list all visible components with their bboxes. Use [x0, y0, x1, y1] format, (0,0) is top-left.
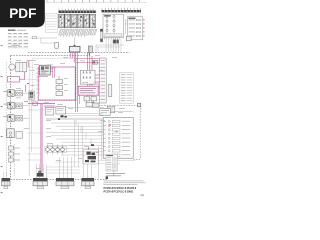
- magenta left column marks: [8, 62, 29, 102]
- bundle below K1: [96, 45, 124, 52]
- wires from left column right: [27, 67, 41, 160]
- relay box K1: [103, 14, 124, 37]
- legend table: [106, 154, 118, 171]
- left connector LC5: [7, 129, 23, 139]
- dark box DL: [93, 103, 100, 107]
- sub components chain: [56, 76, 63, 96]
- left dashed device boundary: [13, 144, 15, 176]
- relay component RC1: [70, 45, 81, 52]
- left device cluster LD: [9, 146, 21, 162]
- small dark box mid: [93, 61, 98, 65]
- connector block J1 top ticks: [59, 9, 93, 11]
- connector block J1 lower hatch row: [59, 29, 97, 35]
- sensor cluster dark: [85, 144, 96, 162]
- wires between K1 and D1: [125, 20, 128, 34]
- mini cluster ML: [29, 91, 34, 100]
- magenta riser top horizontal: [28, 104, 55, 107]
- component B3: [88, 46, 92, 55]
- bottom connector BC3: [82, 178, 95, 189]
- vertical wires to bottom components: [4, 157, 92, 182]
- wires from J1 down: [61, 35, 85, 45]
- collector vertical lines: [29, 62, 31, 176]
- wire W38: [30, 36, 57, 43]
- diode block D1 magenta pins: [143, 20, 145, 36]
- note lines upper: [106, 173, 125, 176]
- main dashed boundary upper line: [28, 51, 130, 53]
- magenta bus vertical pair: [70, 52, 77, 112]
- left bus vertical: [5, 62, 7, 176]
- dashed box right: corner mark: [138, 103, 141, 107]
- dashed box right: bottom segment: [133, 159, 141, 161]
- left legend table: [8, 30, 29, 48]
- page number: [141, 195, 144, 196]
- horizontal wires upper mid: [28, 108, 104, 119]
- pin list table: [120, 73, 133, 104]
- small label left of dashed: [12, 45, 21, 48]
- scattered tiny labels: [16, 55, 125, 169]
- label box L1: [100, 108, 133, 115]
- magenta small box near riser: [33, 102, 38, 105]
- bracket element: [108, 85, 112, 97]
- diode block D1 box: [127, 17, 143, 40]
- top border ruler ticks: [46, 0, 147, 3]
- solenoid cluster circles: [45, 145, 67, 155]
- svg-text:PC270-8 PC270LC-8 30001: PC270-8 PC270LC-8 30001: [104, 189, 135, 193]
- CB2 pink marks: [109, 124, 118, 131]
- wires below K1: [106, 39, 121, 51]
- mid box MB2: [56, 106, 66, 114]
- main dashed boundary bottom edge: [2, 179, 107, 181]
- magenta horizontals: [76, 59, 100, 88]
- connector CN1 dark pair: [113, 40, 119, 44]
- magenta box M1: [38, 67, 75, 100]
- sensor S0 circle-box: [9, 62, 27, 71]
- bottom connector BC0: [2, 178, 11, 189]
- dashed bottom end tick: [106, 176, 108, 179]
- small box B2: [55, 43, 59, 49]
- note paragraph: [104, 181, 146, 185]
- sensor cluster outline: [84, 150, 99, 165]
- main dashed boundary left edge: [10, 56, 12, 180]
- magenta inner laterals M1: [38, 67, 79, 105]
- page background: [0, 0, 149, 198]
- label box L2: [107, 106, 115, 112]
- connector block J1 top bar: [59, 11, 97, 14]
- contact box CB1: [81, 70, 96, 84]
- dashed box right: right edge: [140, 106, 142, 160]
- dashed box right: top: [96, 105, 141, 107]
- diode block D1 header: [128, 18, 135, 19]
- magenta box M2 text: [80, 88, 96, 93]
- riser foot element: [37, 171, 44, 177]
- magenta tick cluster small: [88, 147, 98, 152]
- PDF badge: [0, 0, 45, 27]
- connector block J1 cells: [59, 14, 96, 28]
- horizontal gather wires above bottom: [46, 161, 135, 174]
- note list box: [46, 14, 58, 33]
- left border ruler ticks: [1, 45, 3, 193]
- relay box K1 pin row: [105, 38, 120, 40]
- left connector LC3: [3, 115, 29, 122]
- diode block D1 rows: [129, 19, 141, 36]
- ECU connector column: [98, 58, 106, 103]
- dashed box center: [33, 58, 77, 101]
- svg-text:PDF: PDF: [9, 6, 36, 21]
- terminal strip top bar: [102, 10, 142, 12]
- dashed segment near legend: [113, 167, 115, 177]
- magenta verticals right: [88, 53, 92, 105]
- magenta box M1 top stub: [27, 61, 31, 84]
- bottom connector BC1: [33, 178, 48, 189]
- left connector LC1: [3, 90, 29, 97]
- comb wires left of CB2: [46, 120, 103, 155]
- left connector LC2: [3, 102, 29, 109]
- terminal strip ticks: [102, 8, 140, 10]
- controller box CB2: [103, 118, 133, 159]
- relay box K1 internals: [105, 15, 123, 36]
- main dashed boundary top-left segment: [11, 55, 91, 57]
- cluster under M2: [84, 97, 97, 107]
- bottom connector BC2: [56, 178, 74, 189]
- magenta box M2: [78, 86, 98, 95]
- mid box MB1: [45, 108, 54, 116]
- dark marks under MB2: [58, 115, 67, 120]
- vertical link element: [100, 29, 103, 42]
- relay box K1 header: [104, 15, 111, 16]
- vertical drops mid-right: [75, 120, 102, 178]
- magenta thick riser: [41, 104, 43, 177]
- M1 pin ticks: [36, 69, 40, 93]
- small box right of CN1: [126, 36, 131, 41]
- relay RC2 cluster: [40, 65, 57, 75]
